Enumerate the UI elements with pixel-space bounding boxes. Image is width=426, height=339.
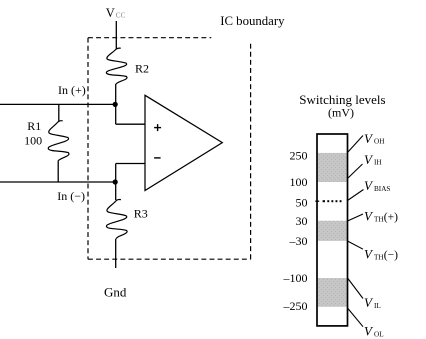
svg-text:250: 250 <box>290 149 308 163</box>
svg-text:CC: CC <box>116 11 126 19</box>
svg-text:IH: IH <box>374 159 382 167</box>
svg-text:In (−): In (−) <box>57 189 85 203</box>
svg-text:OL: OL <box>374 331 384 339</box>
svg-text:(−): (−) <box>384 250 398 262</box>
svg-text:(mV): (mV) <box>328 105 354 119</box>
svg-text:IL: IL <box>374 302 381 310</box>
svg-text:IC boundary: IC boundary <box>220 14 285 28</box>
svg-text:100: 100 <box>290 175 308 189</box>
svg-text:100: 100 <box>24 133 42 147</box>
svg-text:–250: –250 <box>283 299 308 313</box>
svg-text:V: V <box>364 131 374 146</box>
svg-text:30: 30 <box>296 214 308 228</box>
svg-text:R3: R3 <box>134 206 148 220</box>
svg-text:–30: –30 <box>289 234 308 248</box>
svg-text:Gnd: Gnd <box>104 285 127 300</box>
svg-text:OH: OH <box>374 138 384 146</box>
svg-text:In (+): In (+) <box>58 83 86 97</box>
svg-text:V: V <box>364 324 374 339</box>
svg-text:V: V <box>106 6 115 20</box>
svg-text:BIAS: BIAS <box>374 185 390 193</box>
svg-text:V: V <box>364 152 374 167</box>
svg-text:(+): (+) <box>384 212 398 224</box>
svg-text:TH: TH <box>374 215 384 223</box>
svg-text:V: V <box>364 247 374 262</box>
svg-text:V: V <box>364 178 374 193</box>
svg-text:V: V <box>364 209 374 224</box>
svg-text:–100: –100 <box>283 271 308 285</box>
svg-text:R2: R2 <box>135 61 149 75</box>
svg-text:V: V <box>364 295 374 310</box>
svg-text:R1: R1 <box>27 119 41 133</box>
svg-text:50: 50 <box>296 196 308 210</box>
svg-text:TH: TH <box>374 253 384 261</box>
